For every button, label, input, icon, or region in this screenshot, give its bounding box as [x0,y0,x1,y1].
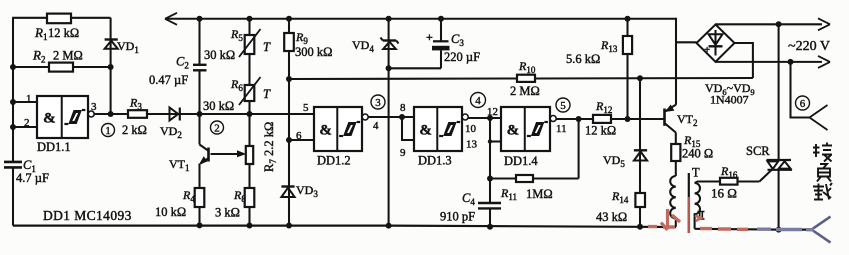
junction dot R11 feedback tap [576,116,582,122]
transformer T secondary winding [695,183,700,229]
svg-text:6: 6 [800,98,806,110]
resistor R9 [284,33,294,51]
wire: thermistor column [248,19,250,35]
wire: bridge right vertex elbow down to timing wire [735,43,753,78]
resistor R13 [626,19,628,36]
connector fork node 6 [810,105,828,130]
junction dots VD4 column [386,65,392,71]
svg-text:+: + [426,30,433,44]
svg-text:0.47 µF: 0.47 µF [149,73,188,87]
arrow line B [818,56,830,68]
pin 2 wire [13,126,37,128]
wire: main right vertical (rail corner to VT2) [675,18,677,105]
junction dots 220V lines [776,21,782,27]
svg-text:12: 12 [487,106,498,118]
wire: R9 column [288,19,290,33]
wire: DD1.2 pin 6 [289,139,314,141]
svg-text:1: 1 [105,125,111,137]
svg-text:30 kΩ: 30 kΩ [204,48,235,62]
bridge internal diode symbol [714,30,716,56]
wire: AC line A (top 220V line) [716,23,823,25]
junction dot SCR to bottom wire [776,227,782,233]
transistor VT2 [663,109,666,126]
svg-text:&: & [319,123,332,139]
wire: load terminal 6 drop [791,62,810,118]
junction dot R8 to rail [247,223,253,229]
bottom secondary wire to load [695,228,812,231]
pin 1 wire [13,101,37,103]
wire: pin 9 drop [402,117,414,140]
diode VD5 [634,149,647,151]
svg-text:5: 5 [560,100,566,112]
node 1 circled [102,124,115,137]
svg-text:10 kΩ: 10 kΩ [155,205,186,219]
wire: R16 to SCR gate [738,180,760,182]
svg-text:2: 2 [214,123,220,135]
svg-text:13: 13 [466,139,478,151]
svg-text:1N4007: 1N4007 [710,93,749,107]
transformer T primary winding [670,176,676,227]
wire: top of R1 loop [12,17,47,19]
label jie-fu-zai (connect load) [813,143,832,200]
resistor R8 [245,188,255,207]
resistor R15 [671,144,680,161]
top supply rail with left continuation arrow [165,18,676,20]
svg-text:T: T [263,87,271,101]
resistor R12 [593,115,611,123]
capacitor C2 [193,64,207,66]
thermistor R5 [245,35,255,54]
bridge rectifier VD6-VD9 diamond [697,25,735,62]
svg-text:10: 10 [465,123,477,135]
transistor VT1 [198,114,200,145]
svg-text:9: 9 [400,147,406,159]
svg-text:SCR: SCR [746,144,770,158]
capacitor C3 (electrolytic) [440,19,442,42]
diode VD1 [105,38,118,40]
svg-text:2 MΩ: 2 MΩ [510,84,540,98]
svg-text:1MΩ: 1MΩ [526,187,553,201]
node 2 circled [211,121,224,134]
arrow line A [818,18,830,30]
svg-text:910 pF: 910 pF [440,210,475,224]
wire: DD1.3 out to DD1.4 in [468,117,501,119]
svg-text:5: 5 [303,102,309,114]
svg-text:T: T [692,166,700,180]
capacitor C4 [478,202,501,204]
wire: C3 bottom to VD4 [389,67,441,69]
wire: SCR vertical [778,24,780,160]
wire: AC line B (bottom 220V line) [716,61,823,63]
capacitor C1 [4,161,22,164]
svg-text:DD1.3: DD1.3 [418,154,452,168]
resistor R3 [128,110,147,118]
node 5 circled [556,98,570,112]
watermark blue dashes on bottom wire [757,227,814,231]
node 6 circled [796,96,810,110]
svg-text:4: 4 [475,95,481,107]
svg-text:3 kΩ: 3 kΩ [215,206,240,220]
wire: timing node to R10 to bridge [289,77,517,80]
junction dots on node1-node2 wire [197,111,203,117]
svg-text:DD1.1: DD1.1 [37,140,71,154]
svg-text:&: & [43,111,56,127]
op-amp gate DD1.3 [414,107,462,151]
svg-text:12 kΩ: 12 kΩ [48,26,79,40]
watermark red dashes on bottom wire [648,227,748,230]
svg-text:&: & [507,123,520,139]
svg-text:3: 3 [375,97,381,109]
resistor R16 [720,178,738,185]
wire R4 to rail + dot [198,207,200,226]
wire: left vertical rail of oscillator loop [12,18,14,162]
svg-text:DD1.4: DD1.4 [504,154,538,168]
wire: VD4 column (supply clamp) [388,19,390,226]
watermark red arrow near secondary [695,216,701,222]
svg-text:DD1 MC14093: DD1 MC14093 [43,208,132,223]
wire: gate output node 1 to DD1.2 pin5 [94,113,128,115]
wire: secondary top to R16 [695,182,720,184]
connector fork load (bottom) [812,217,831,243]
svg-text:+: + [704,44,710,56]
bottom ground rail (left portion) [13,226,676,227]
thermistor R6 [245,85,255,101]
resistor R4 [195,188,205,207]
diode VD2 [170,108,179,121]
thyristor SCR (triac) [767,159,792,161]
junction dots on left loop [10,64,16,70]
wire: R2 branch [13,66,49,68]
transformer core (red watermark part) [687,197,690,233]
svg-text:16 Ω: 16 Ω [711,186,737,201]
svg-text:12 kΩ: 12 kΩ [585,124,616,138]
junction dots VD5 column [637,75,643,81]
wire: rail corner into bridge left vertex [676,41,697,43]
arrow: rail continuation left [165,13,177,25]
svg-text:3: 3 [91,101,97,113]
svg-text:~220 V: ~220 V [788,39,830,54]
diode VD5 column [639,78,641,193]
svg-text:11: 11 [556,123,567,135]
svg-text:8: 8 [400,102,406,114]
svg-text:300 kΩ: 300 kΩ [295,45,332,59]
op-amp gate DD1.2 [314,107,362,151]
svg-text:1: 1 [26,93,32,105]
svg-text:2 kΩ: 2 kΩ [122,123,147,137]
watermark red mark I near primary [661,209,680,230]
op-amp gate DD1.1 (schmitt NAND) [37,96,88,138]
R7 wiper arrow from VT1 base [211,153,244,155]
resistor R14 [635,193,645,207]
svg-text:T: T [263,40,271,54]
junction dot pins 8/9 tie [399,114,405,120]
svg-text:4: 4 [373,120,379,132]
svg-text:4.7 µF: 4.7 µF [16,171,49,185]
node 3 circled [371,95,385,109]
diode VD4 (zener) [383,39,396,41]
junction dot pin12/13 tie [487,115,493,121]
svg-text:240 Ω: 240 Ω [682,147,713,161]
wire: C2 branch vertical [198,19,200,65]
svg-text:220 µF: 220 µF [444,50,480,64]
wire: DD1.2 out to DD1.3 in [368,116,414,118]
wire: DD1.4 out to R12 [556,118,593,120]
wire: right vertical with VD1 [110,18,112,114]
svg-text:30 kΩ: 30 kΩ [203,99,234,113]
junction dot R13 to base wire [625,116,631,122]
resistor R11 and feedback wire [490,177,516,179]
op-amp gate DD1.4 [501,107,550,151]
junction dots C4 column [488,139,492,143]
wire: R12 to VT2 base [611,118,664,120]
svg-text:43 kΩ: 43 kΩ [596,210,627,224]
potentiometer R7 [246,146,253,164]
resistor R1 [47,14,71,24]
label II (secondary) [698,212,705,220]
diode VD3 [281,185,294,187]
svg-text:2 MΩ: 2 MΩ [53,49,83,63]
junction dots R9 column [286,76,292,82]
wire: pin 13 drop and C4 column [489,118,491,203]
resistor R2 [49,63,73,72]
svg-text:5.6 kΩ: 5.6 kΩ [566,52,600,66]
resistor R10 [517,75,535,82]
wire: R15 to primary [675,161,677,176]
svg-text:6: 6 [296,130,302,142]
svg-text:DD1.2: DD1.2 [317,154,351,168]
svg-text:2: 2 [24,117,30,129]
node 4 circled [471,93,486,108]
svg-text:R7 2.2 kΩ: R7 2.2 kΩ [262,122,278,172]
junction dots on top rail [197,16,203,22]
transformer core [688,173,690,197]
svg-text:&: & [419,123,432,139]
